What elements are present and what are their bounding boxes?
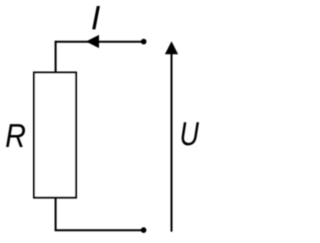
wire top-left vertical drop to resistor [55,41,57,73]
node terminal top dot [141,39,147,45]
wire bottom horizontal [55,229,144,231]
label R [6,124,25,147]
resistor R body [34,73,76,198]
label U [182,122,199,145]
voltage arrow U line [171,52,173,232]
wire top horizontal [56,41,144,43]
voltage arrowhead U (points up) [165,41,178,54]
label I [92,6,100,29]
wire bottom vertical from resistor [55,198,57,231]
node terminal bottom dot [141,227,147,233]
current arrowhead I (points left) [86,35,99,48]
